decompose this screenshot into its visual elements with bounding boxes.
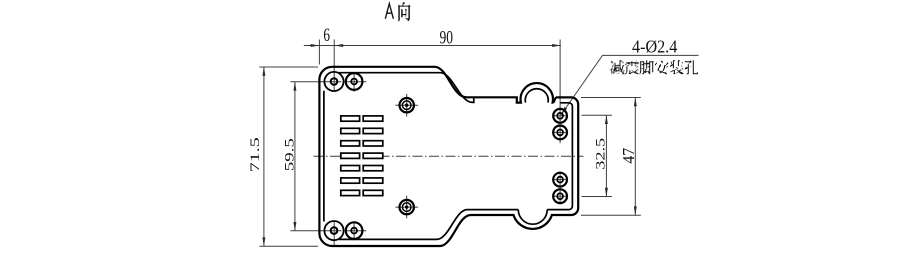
extension line y=115.2 <box>582 114 612 116</box>
vent slot row 3 right <box>363 141 383 146</box>
arrow 71.5 bottom <box>262 237 265 246</box>
crosshair top-left mounting hole <box>345 73 366 92</box>
vent slot row 5 left <box>341 166 360 171</box>
top bump inner arc <box>525 89 548 103</box>
arrow 71.5 top <box>262 67 265 76</box>
crosshairs right holes <box>553 116 569 196</box>
extension line bottom edge y=246.2 <box>259 245 318 247</box>
note text damping foot mounting holes <box>611 60 699 74</box>
vent slot row 2 right <box>363 128 383 133</box>
arrow 32.5 bottom <box>605 188 608 197</box>
top-left corner boss <box>324 72 343 91</box>
crosshair bottom-left mounting hole <box>345 222 366 241</box>
inner wall right section <box>547 103 572 210</box>
vent slot row 6 right <box>363 178 383 183</box>
label A-direction view <box>385 4 393 19</box>
arrow 90 right <box>552 44 561 47</box>
arrow 47 top <box>634 98 637 107</box>
vent slot row 2 left <box>341 128 360 133</box>
right hole 3 <box>553 173 567 187</box>
dimension line 71.5 <box>263 67 265 246</box>
centerline horizontal axis <box>314 155 584 157</box>
arrow 47 bottom <box>634 206 637 215</box>
svg-text:32.5: 32.5 <box>594 138 608 170</box>
vent slot row 7 left <box>341 190 360 195</box>
arrow 59.5 bottom <box>293 222 296 231</box>
leader line for 4-O2.4 note <box>561 55 699 115</box>
arrow leader at hole <box>561 107 567 115</box>
vent slot row 4 left <box>341 153 360 158</box>
extension line right hole column x=560.1 <box>559 40 561 144</box>
arrow 59.5 top <box>293 82 296 91</box>
svg-text:71.5: 71.5 <box>247 137 262 172</box>
extension line y=81.8 through top-left holes <box>290 81 341 83</box>
vent slot row 5 right <box>363 166 383 171</box>
inner wall bottom edge and S-curve <box>339 210 518 240</box>
bottom-left corner boss <box>324 221 343 240</box>
inner wall top edge and S-curve <box>339 73 474 103</box>
extension line y=215.2 <box>581 214 641 216</box>
svg-text:90: 90 <box>440 28 454 49</box>
extension line y=97.5 <box>581 97 641 99</box>
inner wall left edge <box>323 91 325 222</box>
svg-text:4-Ø2.4: 4-Ø2.4 <box>632 36 677 56</box>
vent slot row 1 left <box>341 116 360 121</box>
dimension line 47 <box>634 98 636 216</box>
top-left corner hole <box>331 78 338 85</box>
dimension line 59.5 <box>294 82 296 231</box>
svg-text:59.5: 59.5 <box>282 138 297 171</box>
middle top hole center dot <box>405 104 408 107</box>
bottom bump inner arc <box>518 210 547 225</box>
dimension line 32.5 <box>605 115 607 196</box>
vent slot row 6 left <box>341 178 360 183</box>
middle bottom hole <box>400 200 414 214</box>
arrow 6 right / 90 left <box>334 44 343 47</box>
vent slot row 3 left <box>341 141 360 146</box>
extension line y=230.8 through bottom-left holes <box>290 230 341 232</box>
svg-text:6: 6 <box>323 25 330 46</box>
right hole 2 <box>553 125 567 139</box>
extension line hole column x=334.3 <box>333 40 335 92</box>
right hole 4 <box>553 189 567 203</box>
vent slot row 7 right <box>363 190 383 195</box>
vent slot row 1 right <box>363 116 383 121</box>
extension line top edge y=67 <box>259 66 318 68</box>
top-left mounting hole <box>346 73 363 90</box>
arrow 32.5 top <box>605 115 608 124</box>
crosshair middle bottom hole <box>395 196 418 219</box>
extension line left edge x=319.4 <box>318 40 320 65</box>
extension line y=196.5 <box>582 196 612 198</box>
svg-text:47: 47 <box>619 147 638 163</box>
bottom-left corner hole <box>331 227 338 234</box>
case outer outline <box>319 67 578 246</box>
crosshair middle top hole <box>395 94 418 117</box>
middle top hole <box>400 98 414 112</box>
middle bottom hole center dot <box>405 205 408 208</box>
crosshair bottom-left corner hole <box>333 221 335 246</box>
arrow 6 left <box>311 44 320 47</box>
right hole 1 <box>553 109 567 123</box>
dimension line 6 and 90 <box>304 45 561 47</box>
bottom-left mounting hole <box>346 222 363 239</box>
vent slot row 4 right <box>363 153 383 158</box>
